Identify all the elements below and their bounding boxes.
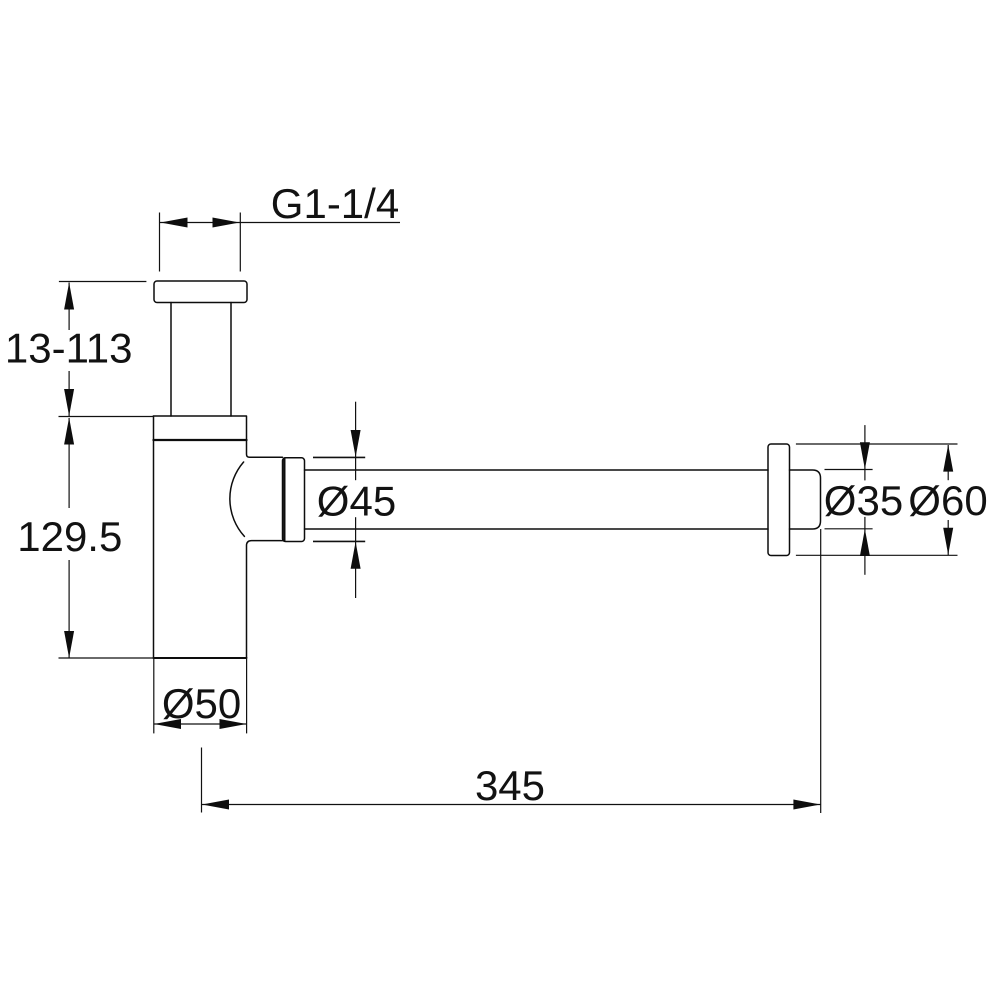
svg-text:G1-1/4: G1-1/4 — [271, 180, 399, 227]
svg-text:Ø60: Ø60 — [908, 477, 987, 524]
svg-text:Ø35: Ø35 — [824, 477, 903, 524]
svg-text:345: 345 — [475, 762, 545, 809]
svg-text:Ø50: Ø50 — [162, 680, 241, 727]
svg-text:13-113: 13-113 — [5, 325, 133, 372]
svg-text:129.5: 129.5 — [17, 513, 122, 560]
svg-text:Ø45: Ø45 — [317, 478, 396, 525]
